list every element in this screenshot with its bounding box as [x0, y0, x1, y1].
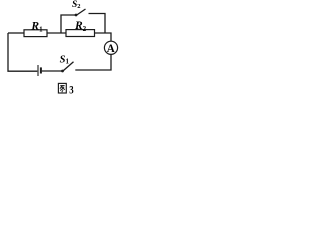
svg-text:S1: S1	[60, 54, 70, 65]
svg-text:R1: R1	[30, 21, 43, 34]
svg-text:3: 3	[69, 84, 74, 96]
svg-text:S2: S2	[72, 0, 81, 10]
svg-text:A: A	[107, 41, 115, 55]
svg-text:R2: R2	[74, 20, 87, 33]
